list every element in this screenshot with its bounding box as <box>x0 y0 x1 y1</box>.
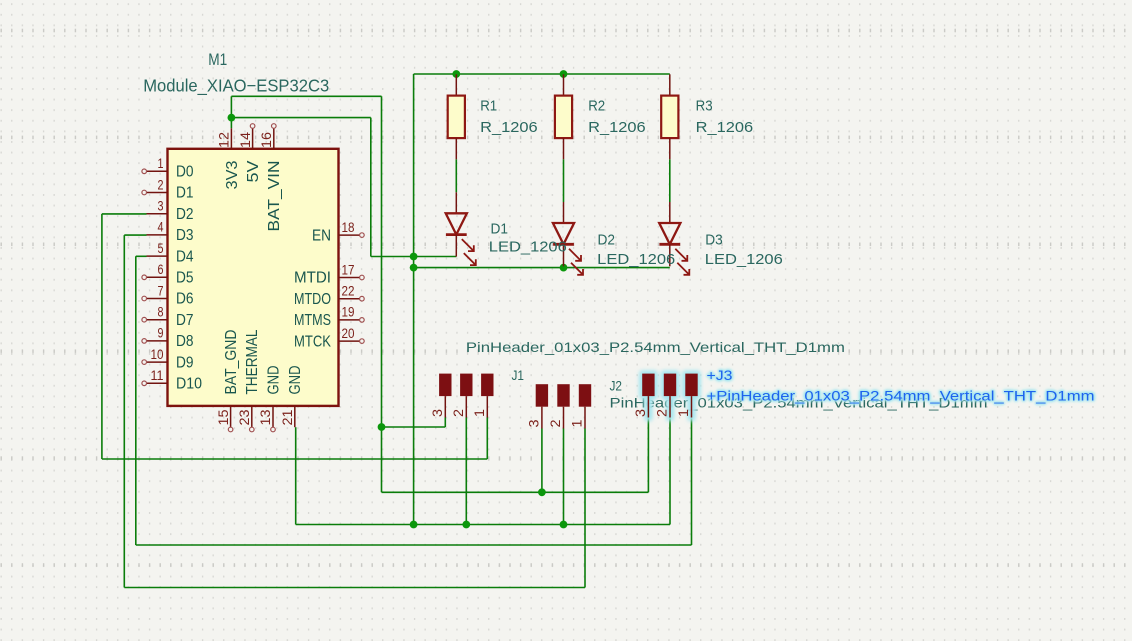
svg-text:D10: D10 <box>176 376 202 393</box>
svg-text:9: 9 <box>158 326 164 341</box>
svg-text:D1: D1 <box>176 185 194 202</box>
svg-text:3: 3 <box>633 409 648 417</box>
svg-text:BAT_GND: BAT_GND <box>223 330 240 395</box>
svg-text:23: 23 <box>237 410 252 426</box>
svg-text:2: 2 <box>548 420 563 428</box>
svg-text:Module_XIAO−ESP32C3: Module_XIAO−ESP32C3 <box>143 75 329 96</box>
svg-text:R3: R3 <box>696 98 713 115</box>
svg-text:D7: D7 <box>176 312 194 329</box>
svg-text:+PinHeader_01x03_P2.54mm_Verti: +PinHeader_01x03_P2.54mm_Vertical_THT_D1… <box>707 387 1095 403</box>
svg-text:R1: R1 <box>480 98 497 115</box>
svg-text:8: 8 <box>158 305 164 320</box>
svg-text:3: 3 <box>158 199 164 214</box>
svg-text:GND: GND <box>287 366 304 395</box>
svg-text:+J3: +J3 <box>707 367 733 383</box>
svg-text:11: 11 <box>151 368 164 383</box>
svg-text:D6: D6 <box>176 291 194 308</box>
svg-text:19: 19 <box>342 305 355 320</box>
svg-text:GND: GND <box>265 366 282 395</box>
svg-text:14: 14 <box>238 131 253 148</box>
svg-text:THERMAL: THERMAL <box>244 329 261 394</box>
svg-text:1: 1 <box>570 420 585 428</box>
svg-text:R_1206: R_1206 <box>696 119 754 136</box>
svg-text:LED_1206: LED_1206 <box>489 239 567 256</box>
svg-text:3: 3 <box>526 420 541 428</box>
svg-text:MTDI: MTDI <box>294 270 331 287</box>
svg-text:D5: D5 <box>176 270 194 287</box>
svg-text:3V3: 3V3 <box>224 160 241 189</box>
svg-text:D3: D3 <box>176 227 194 244</box>
svg-text:D2: D2 <box>176 206 194 223</box>
svg-text:10: 10 <box>151 347 164 362</box>
svg-text:D3: D3 <box>705 231 723 248</box>
svg-text:D9: D9 <box>176 354 194 371</box>
svg-text:MTDO: MTDO <box>294 291 331 308</box>
svg-text:EN: EN <box>312 227 331 244</box>
svg-text:PinHeader_01x03_P2.54mm_Vertic: PinHeader_01x03_P2.54mm_Vertical_THT_D1m… <box>466 339 845 355</box>
svg-text:18: 18 <box>342 220 355 235</box>
svg-text:R_1206: R_1206 <box>588 119 646 136</box>
svg-text:2: 2 <box>158 177 164 192</box>
svg-text:D1: D1 <box>491 221 509 238</box>
svg-text:MTCK: MTCK <box>294 333 331 350</box>
svg-text:R2: R2 <box>588 98 605 115</box>
svg-text:17: 17 <box>342 262 355 277</box>
svg-text:D4: D4 <box>176 248 194 265</box>
svg-text:7: 7 <box>158 283 164 298</box>
svg-text:4: 4 <box>158 220 164 235</box>
svg-text:5V: 5V <box>245 160 262 182</box>
svg-text:22: 22 <box>342 284 355 299</box>
svg-text:D2: D2 <box>598 231 616 248</box>
svg-text:1: 1 <box>676 409 691 417</box>
svg-text:13: 13 <box>258 410 273 426</box>
svg-text:20: 20 <box>342 326 355 341</box>
svg-text:12: 12 <box>217 132 232 148</box>
svg-text:MTMS: MTMS <box>294 312 331 329</box>
svg-text:R_1206: R_1206 <box>480 119 538 136</box>
svg-text:BAT_VIN: BAT_VIN <box>266 161 283 232</box>
svg-text:LED_1206: LED_1206 <box>705 251 783 268</box>
svg-text:2: 2 <box>655 409 670 417</box>
svg-text:16: 16 <box>259 132 274 148</box>
svg-text:1: 1 <box>472 409 487 417</box>
svg-text:M1: M1 <box>208 50 227 69</box>
svg-text:21: 21 <box>280 410 295 426</box>
svg-text:J2: J2 <box>610 378 623 394</box>
svg-text:D8: D8 <box>176 333 194 350</box>
svg-text:D0: D0 <box>176 164 194 181</box>
svg-text:5: 5 <box>158 241 164 256</box>
svg-text:15: 15 <box>216 410 231 426</box>
svg-text:2: 2 <box>451 409 466 417</box>
svg-text:3: 3 <box>430 409 445 417</box>
svg-text:LED_1206: LED_1206 <box>597 251 675 268</box>
svg-text:J1: J1 <box>512 367 525 383</box>
svg-text:6: 6 <box>158 262 164 277</box>
svg-text:1: 1 <box>158 156 164 171</box>
